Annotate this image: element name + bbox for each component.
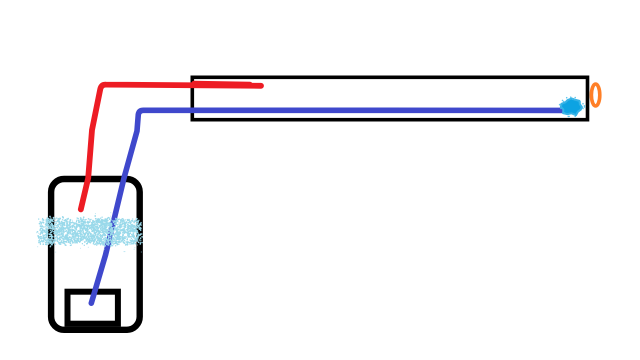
water level spray band [38, 216, 143, 246]
heater box inside kettle [68, 292, 118, 324]
orange ring outlet [591, 84, 599, 106]
horizontal tube outline [192, 77, 587, 119]
water blob at tube end [561, 99, 582, 116]
blob fringe dots [560, 97, 585, 116]
kettle body (rounded vessel) [51, 179, 140, 330]
red wire [81, 85, 261, 210]
blue wire [91, 110, 566, 303]
red wire overlap stroke [194, 83, 250, 84]
